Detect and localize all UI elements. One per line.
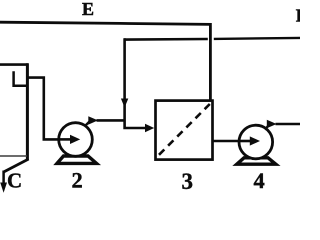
wire recycle down line	[125, 38, 147, 128]
arrow into unit 3	[145, 124, 154, 133]
pump 4 outlet arrow	[267, 120, 277, 128]
wire E line top	[0, 22, 210, 100]
tank 1 funnel diagonal	[4, 159, 29, 172]
svg-text:E: E	[82, 0, 94, 19]
wire F line left segment	[124, 38, 208, 41]
svg-text:3: 3	[182, 169, 194, 194]
wire C outlet down	[2, 171, 5, 185]
arrow C down	[0, 183, 7, 193]
membrane diagonal dashed	[159, 104, 210, 155]
pump 2 circle	[59, 123, 93, 157]
svg-text:C: C	[7, 169, 22, 193]
svg-text:F: F	[296, 6, 300, 26]
membrane unit 3 box	[156, 101, 213, 160]
pump 2 inlet arrow	[58, 138, 71, 141]
tank 1 top edge	[0, 63, 28, 66]
pump 4 circle	[239, 125, 273, 159]
tank 1 inner pipe hook	[14, 71, 27, 85]
pump 2 base	[57, 156, 97, 163]
pump 2 outlet arrow	[88, 116, 98, 124]
pump 4 inlet arrow	[240, 140, 251, 143]
wire unit3 to pump4	[213, 140, 245, 143]
svg-text:4: 4	[254, 168, 265, 193]
pump 4 base	[237, 158, 276, 164]
pump 4 outlet connector	[265, 124, 270, 130]
wire F line right segment	[214, 38, 300, 39]
pump 2 outlet connector	[85, 121, 91, 127]
wire pump4 outlet to right edge	[276, 123, 301, 126]
wire pump2 outlet	[97, 119, 126, 122]
arrow down on recycle line	[121, 99, 128, 108]
wire tank to pump2	[27, 78, 60, 140]
tank 1 right edge	[26, 63, 29, 160]
tank 1 thin bottom line	[0, 155, 27, 157]
svg-text:2: 2	[72, 168, 83, 193]
